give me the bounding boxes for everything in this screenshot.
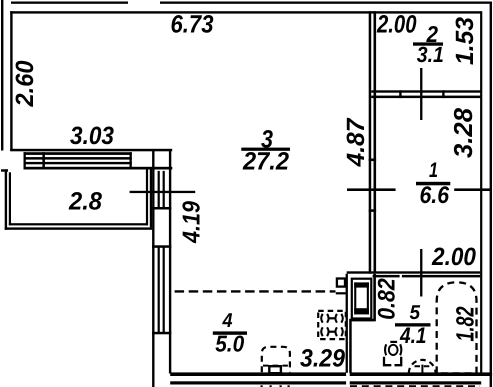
svg-text:1: 1: [429, 159, 438, 182]
stove: [318, 311, 346, 339]
neighbour wall line right: [350, 381, 482, 384]
balcony right pier: [150, 169, 152, 227]
wall room1-room5 top line: [347, 271, 481, 273]
wall bath west bump: [346, 274, 376, 373]
svg-text:1.82: 1.82: [452, 306, 480, 341]
svg-text:4: 4: [222, 310, 233, 332]
svg-text:3.29: 3.29: [300, 345, 345, 373]
room4 label: [213, 310, 247, 357]
room3 label: [241, 125, 290, 175]
wall left outer stub: [1, 0, 3, 151]
window left zone2 mullions: [152, 245, 171, 334]
wall top outer left segment: [11, 2, 128, 4]
svg-text:5.0: 5.0: [215, 331, 244, 357]
svg-text:2.60: 2.60: [11, 60, 39, 107]
wall room2-room1 double: [371, 90, 480, 98]
wall top inner: [10, 11, 480, 13]
leader 2.8: [130, 191, 196, 193]
bath sink: [409, 360, 436, 373]
dashed kitchen boundary: [175, 290, 336, 292]
neighbour dashes: [261, 385, 290, 387]
wall room1-room5 lower line with notch: [373, 275, 481, 278]
svg-text:4.19: 4.19: [179, 201, 206, 244]
wall room3 bottom-left lintel: [10, 149, 172, 152]
window balcony horizontal band: [24, 152, 173, 169]
measure line 6.6 right segment: [454, 188, 490, 191]
window left zone1 mullions: [152, 171, 171, 210]
wall right outer: [490, 2, 492, 387]
room2 label: [413, 21, 444, 67]
boiler: [352, 279, 372, 319]
kitchen sink: [262, 347, 290, 373]
svg-text:2.8: 2.8: [68, 188, 102, 216]
svg-text:0.82: 0.82: [373, 278, 400, 320]
wall room3-room2 double: [369, 11, 376, 274]
toilet: [384, 341, 401, 365]
svg-text:3.28: 3.28: [448, 107, 478, 158]
wall left column inner line: [169, 151, 171, 374]
vent box: [336, 279, 346, 295]
bathtub: [437, 282, 477, 373]
svg-text:3.1: 3.1: [417, 42, 444, 67]
svg-text:1.53: 1.53: [451, 17, 479, 65]
wall left column outer line: [152, 151, 154, 387]
neighbour wall line left: [170, 381, 346, 384]
wall room3 left inner: [10, 11, 12, 151]
measure line vertical bottom: [420, 249, 422, 297]
balcony outer wall: [1, 169, 152, 230]
svg-text:5: 5: [410, 302, 421, 324]
svg-text:27.2: 27.2: [242, 148, 289, 176]
svg-text:3.03: 3.03: [70, 122, 114, 150]
room5 label: [395, 302, 431, 348]
wall right inner: [480, 11, 482, 373]
wall bottom right segment: [350, 372, 492, 376]
balcony inner line: [9, 169, 148, 225]
room1 label: [416, 159, 450, 209]
svg-text:2.00: 2.00: [376, 11, 416, 39]
measure line vertical top: [420, 68, 422, 120]
svg-text:6.6: 6.6: [420, 182, 450, 209]
svg-text:2.00: 2.00: [431, 243, 476, 271]
svg-text:6.73: 6.73: [171, 11, 214, 39]
wall top outer right segment: [160, 2, 491, 4]
measure line 6.6 left segment: [347, 188, 396, 191]
svg-text:4.1: 4.1: [399, 323, 426, 348]
svg-text:4.87: 4.87: [342, 117, 370, 167]
wall bottom left segment: [170, 372, 346, 376]
